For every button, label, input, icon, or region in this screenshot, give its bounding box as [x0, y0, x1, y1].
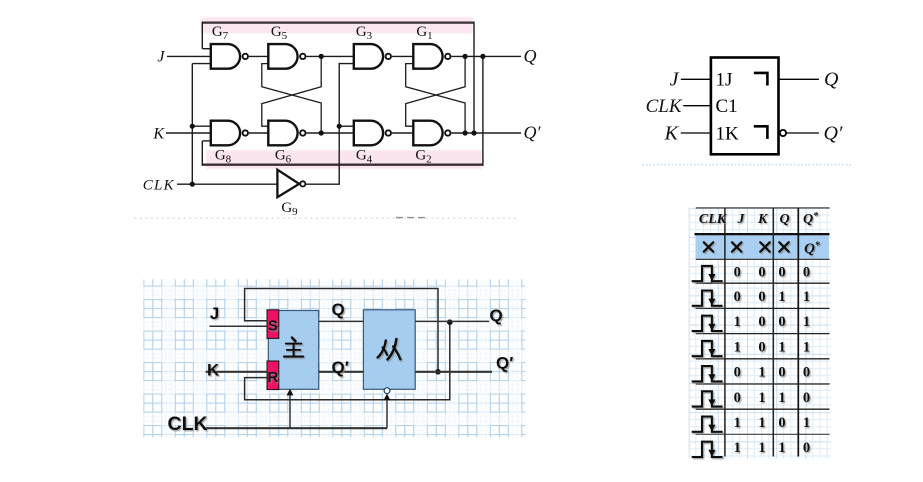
feedback rail Q-prime to S [245, 289, 438, 372]
svg-text:0: 0 [778, 314, 785, 330]
junction Q-prime feedback [435, 369, 441, 375]
truth table row 1 values 0000 [734, 264, 810, 280]
svg-text:Q′: Q′ [524, 123, 542, 143]
svg-text:Q: Q [490, 306, 503, 325]
svg-text:1: 1 [734, 314, 741, 330]
pink band top [201, 17, 473, 33]
NAND gate G6 [268, 121, 305, 146]
svg-text:K: K [664, 122, 680, 144]
svg-text:S: S [268, 318, 278, 335]
svg-text:G2: G2 [415, 148, 431, 166]
svg-text:1: 1 [734, 440, 741, 456]
truth table row 7 values 1101 [734, 415, 810, 431]
junction Q-prime / top rail riser [471, 130, 476, 135]
graph paper background left [143, 279, 525, 437]
graph paper background right [689, 208, 831, 459]
svg-text:1: 1 [778, 390, 785, 406]
junction inverted clock / G4 input [337, 124, 342, 129]
svg-text:0: 0 [778, 415, 785, 431]
wire G8 bottom input stub [202, 140, 211, 142]
svg-text:0: 0 [734, 289, 741, 305]
svg-text:CLK: CLK [646, 96, 683, 117]
svg-text:1: 1 [803, 415, 810, 431]
truth table row line 5 [696, 383, 830, 385]
svg-text:Q′: Q′ [496, 354, 513, 373]
truth table row line 2 [696, 307, 830, 309]
dont-care X K [760, 242, 769, 251]
svg-text:0: 0 [803, 390, 810, 406]
svg-text:C1: C1 [716, 96, 738, 117]
svg-text:0: 0 [734, 365, 741, 381]
clock pulse glyph row 5 [692, 366, 723, 381]
junction Q / slave cross [463, 54, 468, 59]
wire symbol Q output [779, 78, 819, 80]
svg-text:J: J [670, 68, 680, 90]
svg-text:0: 0 [803, 264, 810, 280]
wire J input [167, 55, 211, 57]
pink band bottom [206, 150, 482, 169]
svg-text:0: 0 [734, 390, 741, 406]
svg-text:Q′: Q′ [824, 122, 843, 144]
truth table header underline (thick) [695, 233, 830, 235]
svg-text:K: K [152, 125, 165, 142]
truth table column rule 3 [797, 208, 799, 457]
clock pulse glyph row 2 [692, 291, 723, 306]
wire master Q to slave [319, 320, 364, 322]
dont-care X J [732, 242, 741, 251]
svg-text:CLK: CLK [143, 177, 175, 193]
svg-text:0: 0 [803, 365, 810, 381]
svg-text:0: 0 [758, 314, 765, 330]
svg-text:0: 0 [778, 264, 785, 280]
junction Q feedback [447, 319, 453, 325]
NAND gate G8 [211, 121, 248, 146]
svg-text:J: J [210, 304, 219, 323]
truth table row 6 values 0110 [734, 390, 810, 406]
clock pulse glyph row 1 [692, 266, 723, 281]
truth table column rule 1 [724, 208, 726, 457]
wire block Q output [415, 320, 489, 322]
svg-text:Q′: Q′ [332, 358, 349, 377]
wire G5 output to G3 [306, 55, 354, 57]
NAND gate G5 [268, 44, 305, 69]
clock pulse glyph row 4 [692, 341, 723, 356]
truth table row 3 values 1001 [734, 314, 810, 330]
truth table row 8 values 1110 [734, 440, 810, 456]
junction Q-prime / slave cross [463, 130, 468, 135]
svg-text:CLK: CLK [699, 212, 728, 227]
svg-text:Q: Q [332, 300, 345, 319]
svg-text:1K: 1K [716, 123, 740, 144]
wire CLK input [177, 183, 277, 185]
svg-text:1: 1 [803, 289, 810, 305]
truth table column rule 2 [772, 208, 774, 457]
svg-text:1: 1 [778, 339, 785, 355]
junction G5 output [319, 54, 324, 59]
clock pulse glyph row 8 [692, 442, 723, 457]
svg-text:Q: Q [779, 212, 789, 227]
svg-text:K: K [757, 212, 769, 227]
clock arrow into slave with bubble [384, 388, 391, 428]
NAND gate G3 [354, 44, 391, 69]
svg-text:0: 0 [758, 289, 765, 305]
inverter G9 [277, 170, 305, 198]
R input block [267, 361, 279, 390]
truth table row line 6 [696, 408, 830, 410]
wire slave latch cross feedback a [406, 64, 465, 133]
wire Q-prime output [452, 132, 522, 134]
wire G3 output to G1 [392, 55, 413, 57]
dont-care X Q [779, 242, 788, 251]
svg-text:0: 0 [758, 339, 765, 355]
svg-text:1: 1 [803, 314, 810, 330]
svg-text:G8: G8 [215, 148, 232, 166]
svg-text:J: J [736, 212, 745, 227]
wire block CLK [204, 427, 387, 429]
svg-text:1J: 1J [716, 69, 733, 90]
wire K input [166, 132, 211, 134]
chinese character slave (cong) [378, 339, 401, 360]
NAND gate G4 [354, 121, 391, 146]
logic symbol body [711, 58, 779, 155]
wire Q output [452, 55, 522, 57]
svg-text:1: 1 [778, 440, 785, 456]
svg-text:1: 1 [758, 440, 765, 456]
NAND gate G2 [413, 121, 450, 146]
svg-text:1: 1 [758, 365, 765, 381]
svg-text:G6: G6 [275, 148, 292, 166]
junction CLK riser / CLK [190, 182, 195, 187]
feedback rail top (Q' to G7) [202, 22, 474, 134]
svg-text:R: R [267, 369, 278, 386]
wire slave latch cross feedback b [406, 56, 465, 126]
svg-text:1: 1 [734, 339, 741, 355]
wire CLK to symbol [683, 105, 711, 107]
feedback rail Q to R [245, 321, 450, 399]
truth table row line 4 [696, 358, 830, 360]
feedback rail bottom (Q to G8) [202, 56, 483, 165]
svg-text:1: 1 [734, 415, 741, 431]
wire master latch cross feedback a [262, 64, 321, 133]
wire G8 output to G6 [249, 132, 268, 134]
dont-care X CLK [704, 242, 713, 251]
chinese character master (zhu) [284, 338, 303, 357]
wire CLK riser to G7/G8 [192, 64, 211, 185]
svg-text:1: 1 [803, 339, 810, 355]
truth table row 2 values 0011 [734, 289, 810, 305]
wire G6 output to G4 [306, 132, 354, 134]
wire block Q-prime output [415, 371, 492, 373]
svg-text:0: 0 [778, 365, 785, 381]
wire K to symbol [681, 132, 711, 134]
inversion bubble Q-prime [780, 130, 786, 136]
svg-text:1: 1 [758, 415, 765, 431]
svg-text:J: J [157, 48, 165, 65]
postponed output sign top [754, 73, 768, 86]
wire symbol Q-prime output [787, 132, 819, 134]
clock pulse glyph row 3 [692, 316, 723, 331]
clock pulse glyph row 6 [692, 391, 723, 406]
wire inverted clock to G4 [339, 125, 354, 127]
truth table row line 1 [696, 282, 830, 284]
svg-text:0: 0 [803, 440, 810, 456]
NAND gate G1 [413, 44, 450, 69]
master block [268, 311, 318, 390]
svg-text:K: K [207, 361, 220, 380]
truth table row 4 values 1011 [734, 339, 810, 355]
truth table line below condition row [696, 258, 830, 260]
wire master Q-prime to slave [319, 371, 364, 373]
S input block [267, 310, 279, 339]
wire G4 output to G2 [392, 132, 413, 134]
svg-text:CLK: CLK [168, 413, 208, 435]
truth table row 5 values 0100 [734, 365, 810, 381]
svg-text:Q: Q [824, 69, 839, 91]
svg-text:Q: Q [524, 46, 537, 66]
clock pulse glyph row 7 [692, 417, 723, 432]
truth table top border [696, 207, 830, 209]
wire G9 output / inverted clock riser [306, 64, 354, 185]
wire J to symbol [681, 78, 711, 80]
truth table condition row highlight [696, 235, 829, 258]
truth table row line 7 [696, 433, 830, 435]
wire block J input [209, 325, 267, 327]
wire block K input [206, 371, 267, 373]
wire G7 top input stub [202, 48, 211, 50]
wire G7 output to G5 [249, 55, 268, 57]
wire master latch cross feedback b [262, 56, 321, 126]
junction G6 output [319, 130, 324, 135]
svg-text:G4: G4 [356, 148, 373, 166]
svg-text:1: 1 [778, 289, 785, 305]
svg-text:1: 1 [758, 390, 765, 406]
slave block [363, 310, 415, 390]
svg-text:0: 0 [758, 264, 765, 280]
junction Q / bottom rail riser [480, 54, 485, 59]
clock arrow into master [287, 389, 294, 428]
svg-text:0: 0 [734, 264, 741, 280]
postponed output sign bottom [754, 126, 768, 139]
truth table row line 3 [696, 333, 830, 335]
faint dashed gray rule [134, 217, 516, 219]
faint dashed blue rule [642, 164, 852, 166]
junction CLK riser / G8 input [190, 124, 195, 129]
svg-text:G9: G9 [281, 200, 298, 218]
NAND gate G7 [211, 44, 248, 69]
